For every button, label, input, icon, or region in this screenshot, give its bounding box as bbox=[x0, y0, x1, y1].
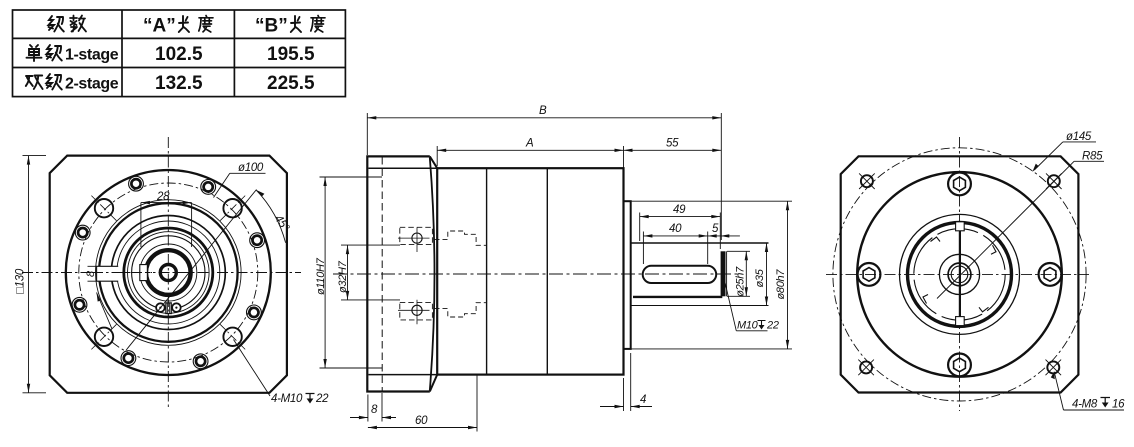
svg-text:225.5: 225.5 bbox=[267, 73, 315, 94]
flange corner chamfers bbox=[430, 156, 437, 391]
dia25h7 extension lines bbox=[727, 251, 750, 296]
svg-text:ø25h7: ø25h7 bbox=[735, 266, 747, 297]
dimension square 130 bbox=[23, 156, 47, 393]
svg-text:49: 49 bbox=[673, 204, 686, 216]
lug slot bbox=[166, 303, 171, 314]
main centerline bbox=[333, 273, 742, 275]
outer boss circle bbox=[857, 172, 1062, 377]
svg-text:1-stage: 1-stage bbox=[65, 47, 119, 64]
dimension B bbox=[367, 113, 721, 240]
M10 depth 22 label with leader bbox=[724, 276, 737, 331]
4 big mounting holes M10 on diagonals bbox=[95, 199, 242, 346]
svg-text:“B”: “B” bbox=[255, 16, 288, 37]
svg-text:B: B bbox=[539, 105, 547, 117]
dimension dia110H7 (rotated) bbox=[320, 177, 383, 368]
svg-text:28: 28 bbox=[156, 191, 170, 203]
dimension 55 bbox=[624, 149, 722, 151]
svg-text:A: A bbox=[525, 138, 534, 150]
shaft end face line bbox=[726, 251, 728, 296]
45 deg reference diagonal through centre bbox=[126, 190, 256, 351]
hidden stepped bore bottom bbox=[435, 303, 487, 317]
keyway 8-dim extension ticks bbox=[88, 266, 97, 281]
hidden slot rectangles on flange bbox=[400, 227, 433, 320]
vertical centerline bbox=[167, 137, 169, 408]
short leader with arrow to bore circle lower-left bbox=[97, 293, 113, 330]
body section dividers bbox=[487, 168, 548, 374]
dimension dia25h7 (rotated) bbox=[745, 251, 747, 296]
horizontal centerline bbox=[826, 273, 1089, 275]
bolt circle (dash-dot) bbox=[79, 183, 258, 362]
svg-text:102.5: 102.5 bbox=[155, 44, 203, 65]
outer boss circle bbox=[66, 170, 271, 375]
4 corner tapped holes M8 with cross marks bbox=[858, 173, 1061, 375]
lug right bbox=[172, 303, 181, 312]
square flange outline with chamfered corners bbox=[50, 156, 287, 393]
flange outline bbox=[367, 156, 430, 391]
svg-text:55: 55 bbox=[666, 138, 679, 150]
concentric circles bbox=[96, 200, 242, 346]
center hole bbox=[160, 265, 176, 281]
shaft end step dia25h7 (bold bar) bbox=[721, 251, 726, 296]
8 small holes ring bbox=[72, 176, 264, 368]
svg-text:4-M10: 4-M10 bbox=[271, 393, 303, 405]
label 8 (keyway height, rotated) bbox=[85, 270, 97, 277]
dimension dia35 (rotated) bbox=[766, 243, 768, 306]
output shaft outline bbox=[631, 242, 769, 244]
hidden stepped bore top bbox=[435, 231, 487, 245]
svg-text:8: 8 bbox=[371, 404, 378, 416]
svg-text:ø32H7: ø32H7 bbox=[337, 260, 349, 293]
svg-text:ø35: ø35 bbox=[754, 268, 766, 287]
diagonal dash-dot centerlines through big holes bbox=[91, 196, 245, 350]
small keyway on hub bbox=[140, 265, 147, 281]
svg-text:60: 60 bbox=[415, 415, 428, 427]
dimension 28 (top bore width) bbox=[141, 203, 192, 247]
hidden back face dashed bbox=[381, 157, 383, 391]
hub circles bbox=[939, 254, 979, 294]
dimension A bbox=[437, 146, 623, 199]
shaft keyway slot bbox=[643, 266, 717, 283]
svg-text:“A”: “A” bbox=[143, 16, 176, 37]
svg-text:40: 40 bbox=[669, 223, 682, 235]
key notches top/bottom bbox=[956, 222, 965, 231]
svg-text:4: 4 bbox=[640, 394, 646, 406]
centre rings bbox=[900, 214, 1020, 334]
dia80h7 extension lines bbox=[631, 201, 792, 349]
centerline redraw over keyways bbox=[92, 272, 152, 274]
svg-text:ø100: ø100 bbox=[238, 162, 264, 174]
svg-text:R85: R85 bbox=[1082, 151, 1103, 163]
svg-text:ø80h7: ø80h7 bbox=[775, 269, 787, 300]
label 4-M8 depth 16 with leader bbox=[1054, 372, 1063, 410]
svg-text:16: 16 bbox=[1112, 399, 1125, 411]
flange curved face arc bbox=[430, 158, 435, 391]
dimension dia80h7 (rotated) bbox=[787, 201, 789, 349]
svg-text:22: 22 bbox=[766, 320, 779, 332]
vertical centerline bbox=[959, 137, 961, 411]
svg-text:2-stage: 2-stage bbox=[65, 76, 119, 93]
dimension 60 bbox=[476, 376, 478, 432]
label 4-M10 depth 22 with leader bbox=[234, 340, 271, 397]
dimension dia32H7 (rotated) bbox=[341, 245, 400, 300]
dimension 5 bbox=[708, 235, 740, 237]
svg-text:ø145: ø145 bbox=[1066, 131, 1092, 143]
header 级数 bbox=[49, 16, 64, 32]
retaining ring tabs bbox=[923, 237, 996, 312]
45 deg dimension arc with arrow bbox=[256, 190, 286, 243]
dimension 49 bbox=[640, 213, 721, 250]
row2 双级2-stage bbox=[26, 76, 43, 90]
svg-text:□130: □130 bbox=[15, 268, 27, 294]
lug circle (thin) bbox=[132, 236, 205, 309]
svg-text:195.5: 195.5 bbox=[267, 44, 315, 65]
flange tapped hole top bbox=[412, 233, 422, 243]
body top/bottom edges visible through flange bbox=[369, 168, 438, 374]
dimension 40 bbox=[643, 232, 707, 265]
horizontal centerline bbox=[22, 272, 301, 274]
svg-text:M10: M10 bbox=[737, 320, 759, 332]
square flange outline with chamfered corners bbox=[841, 156, 1079, 392]
centre vertical key bar bbox=[959, 224, 961, 325]
big keyway slot (input bore) bbox=[97, 266, 119, 281]
table grid bbox=[13, 10, 346, 97]
lug left bbox=[156, 303, 165, 312]
svg-text:5: 5 bbox=[712, 223, 719, 235]
svg-text:ø110H7: ø110H7 bbox=[315, 257, 327, 295]
bolt circle dia145 dash-dot bbox=[833, 148, 1086, 401]
4 socket head cap screws bbox=[858, 173, 1062, 377]
row1 单级1-stage bbox=[27, 45, 42, 61]
output face plate bbox=[624, 201, 631, 349]
svg-text:132.5: 132.5 bbox=[155, 73, 203, 94]
flange tapped hole bottom bbox=[412, 305, 422, 315]
svg-text:4-M8: 4-M8 bbox=[1072, 399, 1098, 411]
gear body bbox=[437, 168, 623, 374]
svg-text:22: 22 bbox=[315, 393, 329, 405]
hub bold circle bbox=[146, 250, 191, 295]
dimension 8 (flange thickness) bbox=[368, 393, 382, 422]
dimension 4 (output plate) bbox=[624, 353, 631, 411]
